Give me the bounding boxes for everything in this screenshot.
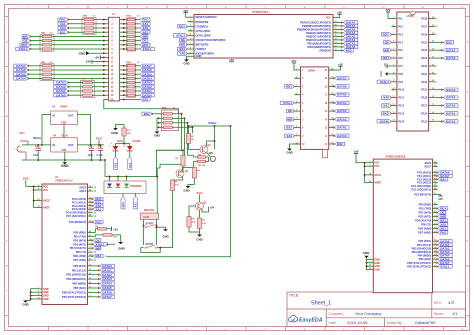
svg-text:WR: WR [95, 246, 101, 250]
no-connect pin 2 [190, 21, 192, 23]
U5 pin PB1 (OC1A) [433, 244, 438, 246]
no-connect pin 4 [190, 30, 192, 32]
svg-text:6: 6 [369, 165, 370, 167]
U5 pin PC0 (ADC0) [433, 172, 438, 174]
svg-text:PB3 (MOSI/OC2): PB3 (MOSI/OC2) [67, 278, 87, 281]
svg-text:7: 7 [89, 291, 90, 293]
svg-text:DATA6: DATA6 [446, 56, 456, 60]
net flag XA1 (U5) [438, 227, 448, 230]
svg-text:31: 31 [89, 235, 91, 237]
svg-text:IN: IN [53, 115, 56, 118]
svg-text:IN12v: IN12v [209, 121, 217, 125]
U5 pin PB3 (MOSI/OC2) [433, 251, 438, 253]
ground (RN6) [157, 118, 159, 131]
svg-text:GND: GND [196, 237, 202, 241]
svg-text:VCC: VCC [96, 137, 103, 141]
wire [143, 230, 145, 245]
svg-text:12V: 12V [183, 9, 188, 13]
resistor R7 [197, 218, 201, 229]
net flag RDY (U6) [284, 85, 294, 88]
svg-text:IN12v: IN12v [33, 136, 41, 140]
net flag DATA1 (U2 right) [344, 42, 358, 45]
svg-text:P119: P119 [421, 89, 427, 92]
svg-text:PB0 (ICP1): PB0 (ICP1) [73, 265, 86, 268]
U1 pin PB6 (XTAL1/TOSC1) [88, 291, 94, 293]
svg-text:DATA7: DATA7 [446, 48, 456, 52]
svg-text:7: 7 [296, 118, 297, 120]
svg-text:PB3 (MOSI/OC2): PB3 (MOSI/OC2) [412, 251, 432, 254]
svg-text:19: 19 [89, 186, 91, 188]
svg-text:XTAL2: XTAL2 [176, 33, 185, 37]
svg-text:GND: GND [61, 122, 66, 124]
wire [193, 155, 195, 157]
wire [26, 186, 37, 188]
net flag DATA3 (U6 right) [335, 109, 349, 112]
svg-text:OUT: OUT [68, 144, 74, 147]
svg-text:+5V: +5V [94, 55, 99, 59]
svg-text:12: 12 [334, 46, 336, 48]
svg-text:P117: P117 [421, 105, 427, 108]
net flags DATA3..DATA0 (left, lower group) [54, 81, 68, 84]
net flag DATA3 (U2 right) [344, 35, 358, 38]
svg-text:17: 17 [432, 104, 434, 106]
svg-text:BS1: BS1 [286, 126, 292, 130]
svg-text:P19: P19 [398, 81, 403, 84]
net flag OE (U1) [93, 239, 101, 242]
svg-text:26: 26 [89, 208, 91, 210]
svg-text:12: 12 [392, 104, 394, 106]
svg-text:DATA6: DATA6 [102, 290, 112, 294]
svg-text:PB2(OC0A/PCINT2): PB2(OC0A/PCINT2) [306, 38, 331, 42]
wire [112, 234, 121, 236]
svg-text:PD0 (RXD): PD0 (RXD) [419, 203, 432, 206]
U5 pin PB5 (SCK) [433, 258, 438, 260]
svg-text:5: 5 [393, 49, 394, 51]
svg-text:PC5 (ADC5/SCL): PC5 (ADC5/SCL) [411, 189, 431, 192]
resistor network RN2 [40, 34, 54, 51]
net flag XA0 (U6) [284, 134, 294, 137]
svg-text:DATA5: DATA5 [102, 286, 112, 290]
svg-text:13: 13 [434, 243, 436, 245]
net flag DATA5 (U1) [93, 287, 100, 289]
svg-text:BS2: BS2 [446, 40, 452, 44]
svg-text:DATA4: DATA4 [16, 76, 26, 80]
net flag DATA4 (U5) [438, 254, 452, 257]
svg-text:6: 6 [38, 189, 39, 191]
svg-text:GND: GND [79, 51, 87, 55]
U1 pin PB2 (SS#/OC1B) [88, 274, 94, 276]
U5 pin PB2 (SS#/OC1B) [433, 247, 438, 249]
net flag DATA2 (U1) [93, 274, 100, 276]
svg-text:7: 7 [434, 261, 435, 263]
svg-text:Company:: Company: [329, 312, 345, 316]
IC U5 ATMEGA168/328 [373, 159, 432, 293]
net flag BS1 (U7) [381, 56, 391, 59]
svg-text:18: 18 [369, 173, 371, 175]
svg-text:XTAL1: XTAL1 [380, 80, 389, 84]
svg-text:1: 1 [89, 243, 90, 245]
svg-text:PD0 (RXD): PD0 (RXD) [73, 231, 86, 234]
svg-text:PB5 (SCK): PB5 (SCK) [73, 287, 86, 290]
svg-text:VCC: VCC [326, 17, 331, 20]
U5 GND pins [368, 258, 373, 260]
net flag DATA3 (U5) [438, 250, 452, 253]
U5 pin PC6 (RESET#) [433, 194, 438, 196]
svg-text:RN6: RN6 [162, 108, 167, 110]
svg-text:19: 19 [334, 21, 336, 23]
regulator U3 78M05 [51, 111, 78, 125]
svg-text:DC1: DC1 [20, 131, 26, 135]
svg-text:RDY: RDY [286, 84, 292, 88]
svg-text:DATA1: DATA1 [337, 126, 347, 130]
U1 pin PB7 (XTAL2/TOSC2) [88, 296, 94, 298]
wire [68, 82, 83, 84]
net flags DATA7..DATA0 (right) [140, 64, 154, 67]
svg-text:PAG: PAG [95, 220, 102, 224]
wire [189, 227, 200, 232]
svg-text:PD7 (AIN1): PD7 (AIN1) [73, 259, 86, 262]
svg-text:DATA0: DATA0 [337, 134, 347, 138]
net flag DATA3 (U7 right) [444, 104, 458, 107]
svg-text:9: 9 [434, 223, 435, 225]
svg-text:4066F: 4066F [143, 216, 150, 219]
U1 pin PD0 (RXD) [88, 231, 94, 233]
svg-text:26: 26 [432, 33, 434, 35]
svg-text:23: 23 [432, 57, 434, 59]
resistor network RN3 [40, 64, 54, 81]
svg-text:DATA5: DATA5 [337, 93, 347, 97]
svg-text:P16: P16 [398, 57, 403, 60]
net flag XTAL2 (U2) [173, 34, 187, 37]
svg-text:(XTAL1)PA0: (XTAL1)PA0 [196, 33, 212, 37]
IC U7 28PIN socket [397, 12, 429, 131]
svg-text:(INT1)PD3: (INT1)PD3 [196, 43, 209, 47]
svg-text:GND: GND [118, 247, 126, 251]
net flag RDY (U5) [438, 207, 448, 210]
svg-text:12V: 12V [86, 60, 91, 64]
svg-text:DATA0: DATA0 [56, 93, 66, 97]
net flag XA0 (U7) [381, 96, 391, 99]
svg-text:AVCC: AVCC [374, 174, 381, 177]
wire [120, 19, 127, 21]
svg-text:PC5 (ADC5/SCL): PC5 (ADC5/SCL) [66, 215, 86, 218]
svg-text:WR: WR [287, 117, 293, 121]
svg-text:GND: GND [61, 164, 69, 168]
svg-text:15: 15 [434, 251, 436, 253]
svg-text:+5V: +5V [353, 149, 358, 153]
svg-text:(RXD)PD0: (RXD)PD0 [196, 20, 209, 24]
svg-text:GND: GND [162, 235, 168, 239]
svg-text:18: 18 [432, 96, 434, 98]
U5 right pins ADC [433, 162, 438, 164]
svg-text:PB4(OC1B/PCINT4): PB4(OC1B/PCINT4) [306, 31, 331, 35]
svg-text:10: 10 [434, 227, 436, 229]
U5 AREF pin [368, 181, 373, 183]
net flag XA0 (U5) [438, 223, 448, 226]
svg-text:AREF: AREF [43, 207, 50, 210]
svg-text:GND: GND [154, 133, 160, 137]
svg-text:P128: P128 [421, 18, 427, 21]
U5 pin PC2 (ADC2) [433, 178, 438, 180]
svg-text:13: 13 [89, 269, 91, 271]
net flag DATA0 (U6 right) [335, 134, 349, 137]
svg-text:28PIN: 28PIN [407, 15, 414, 18]
U1 pin PD4 (XCK/T0) [88, 247, 94, 249]
wire [106, 243, 115, 245]
svg-text:P120: P120 [421, 81, 427, 84]
svg-text:GND: GND [363, 251, 371, 255]
svg-text:PB7 (XTAL2/TOSC2): PB7 (XTAL2/TOSC2) [407, 265, 431, 268]
svg-text:P18: P18 [398, 73, 403, 76]
svg-text:11: 11 [434, 231, 436, 233]
svg-text:2: 2 [434, 219, 435, 221]
svg-text:GND: GND [111, 131, 119, 135]
svg-text:P121: P121 [421, 73, 427, 76]
svg-text:XTAL1: XTAL1 [283, 101, 292, 105]
svg-text:XA1: XA1 [128, 162, 132, 168]
U1 pin PB1 (OC1A) [88, 269, 94, 271]
svg-text:8: 8 [393, 72, 394, 74]
resistor network RN7 [81, 81, 95, 98]
U1 pin PC0 (ADC0) [88, 198, 94, 200]
U5 pin PB7 (XTAL2/TOSC2) [433, 265, 438, 267]
U1 GND pins [37, 288, 43, 290]
U1 pin PB5 (SCK) [88, 287, 94, 289]
svg-text:P13: P13 [398, 33, 403, 36]
resistor R2 [181, 156, 185, 167]
net flag WR (U5) [438, 215, 446, 218]
U5 pin PC4 (ADC4/SDA) [433, 185, 438, 187]
svg-text:PB6 (XTAL1/TOSC1): PB6 (XTAL1/TOSC1) [62, 291, 86, 294]
svg-text:PB6(MISO/DO/PCINT6): PB6(MISO/DO/PCINT6) [302, 24, 331, 28]
svg-text:DATA3: DATA3 [337, 109, 347, 113]
U1 pin PC3 (ADC3) [88, 208, 94, 210]
svg-text:DATA1: DATA1 [102, 268, 112, 272]
wire [109, 177, 111, 182]
net flag XA1 (RGB, vertical) [134, 197, 138, 209]
ground (U2 GND pin) [187, 56, 195, 59]
svg-text:P123: P123 [421, 57, 427, 60]
U1 pin PB4 (MISO) [88, 283, 94, 285]
net flag PAG (U7) [381, 112, 391, 115]
svg-text:GND: GND [61, 150, 66, 152]
U5 pin PD0 (RXD) [433, 203, 438, 205]
U1 right pins ADC [88, 186, 94, 188]
U5 VCC pins [368, 162, 373, 164]
svg-text:OE: OE [385, 40, 389, 44]
svg-text:TITLE:: TITLE: [289, 294, 299, 298]
svg-text:PB0 (ICP1): PB0 (ICP1) [418, 240, 431, 243]
U5 pin PB4 (MISO) [433, 255, 438, 257]
svg-text:29: 29 [434, 193, 436, 195]
svg-text:21: 21 [432, 72, 434, 74]
svg-text:6: 6 [393, 57, 394, 59]
svg-text:21: 21 [369, 265, 371, 267]
net flag DATA6 (U2 right) [344, 24, 358, 27]
ground (Q cluster) [186, 186, 191, 188]
U1 VCC pins [37, 186, 43, 188]
wire to erase cluster [156, 177, 158, 214]
ground (U7 pin8) [388, 73, 392, 75]
svg-text:P118: P118 [421, 97, 427, 100]
svg-text:BS1: BS1 [383, 56, 389, 60]
svg-text:DATA1: DATA1 [446, 111, 456, 115]
net flag BS1 (U2) [177, 47, 187, 50]
svg-text:22: 22 [432, 64, 434, 66]
svg-text:27: 27 [89, 211, 91, 213]
svg-text:22: 22 [89, 190, 91, 192]
U1 pin PD5 (T1) [88, 251, 94, 253]
net flag XA0 (U1) [93, 204, 103, 207]
net flag DATA6 (U1) [93, 291, 100, 293]
svg-text:PB6 (XTAL1/TOSC1): PB6 (XTAL1/TOSC1) [407, 262, 431, 265]
U1 pin PC4 (ADC4/SDA) [88, 212, 94, 214]
svg-text:ERASE: ERASE [144, 208, 154, 212]
net flag RDY (U7) [381, 33, 391, 36]
wire [46, 114, 51, 116]
svg-text:PD5 (T1): PD5 (T1) [76, 251, 86, 254]
svg-text:P127: P127 [421, 26, 427, 29]
svg-text:DATA0: DATA0 [102, 264, 112, 268]
net flag XA1 (U7) [381, 104, 391, 107]
wire [152, 113, 163, 115]
svg-text:P112: P112 [398, 105, 404, 108]
svg-text:7: 7 [190, 43, 191, 45]
svg-text:32: 32 [434, 211, 436, 213]
wire [194, 178, 196, 185]
svg-text:OE: OE [181, 38, 185, 42]
svg-text:P124: P124 [421, 49, 427, 52]
svg-text:EasyEDA: EasyEDA [299, 318, 323, 324]
net flag OE (U5) [438, 211, 446, 214]
net flag DATA4 (U1) [93, 283, 100, 285]
U5 pin PC1 (ADC1) [433, 175, 438, 177]
svg-text:BS1: BS1 [60, 30, 66, 34]
svg-text:RDY: RDY [179, 24, 185, 28]
net flag DATA4 (U6 right) [335, 101, 349, 104]
net flag BS1 (U1) [93, 201, 103, 204]
svg-text:AVCC: AVCC [43, 200, 50, 203]
resistor R1 [186, 134, 190, 144]
svg-text:ATTINY2313: ATTINY2313 [252, 10, 269, 14]
net flag XTAL1 (U1) [93, 243, 107, 246]
title block [287, 292, 466, 327]
svg-text:Sheet:: Sheet: [434, 312, 444, 316]
net flag PAG (U1) [93, 221, 103, 224]
svg-text:5: 5 [369, 261, 370, 263]
svg-text:8: 8 [89, 295, 90, 297]
svg-text:PAG: PAG [383, 111, 390, 115]
svg-text:Your Company: Your Company [355, 311, 381, 316]
svg-text:(TXD)PD1: (TXD)PD1 [196, 24, 209, 28]
net flag DATA0 (U2 right) [344, 45, 358, 48]
wire [157, 226, 165, 228]
svg-text:ADC6: ADC6 [79, 186, 86, 189]
U1 pin PC5 (ADC5/SCL) [88, 215, 94, 217]
resistor network RN5 [126, 64, 135, 97]
net flag XA1 (LED2, vertical) [128, 157, 132, 169]
EasyEDA logo [288, 315, 297, 321]
svg-text:XTAL1: XTAL1 [19, 47, 28, 51]
svg-text:9: 9 [190, 52, 191, 54]
svg-text:1: 1 [296, 68, 297, 70]
svg-text:+5V: +5V [113, 227, 118, 231]
svg-text:P114: P114 [398, 120, 404, 123]
svg-text:BS2: BS2 [142, 97, 148, 101]
resistor R8 [187, 217, 191, 228]
net flag DATA5 (U6 right) [335, 93, 349, 96]
svg-text:32: 32 [89, 239, 91, 241]
net flag DATA4 (U7 right) [444, 96, 458, 99]
net flag DATA7 (U2 right) [344, 21, 358, 24]
net flag DATA6 (U6 right) [335, 85, 349, 88]
svg-text:8: 8 [296, 126, 297, 128]
net flags PAG XA1 XA0 BS1 WR OE RDY XTAL1 (right of J1) [140, 18, 150, 21]
svg-text:7: 7 [393, 64, 394, 66]
U1 pin PD3 (INT1) [88, 243, 94, 245]
svg-text:PD6 (AIN0): PD6 (AIN0) [418, 227, 431, 230]
svg-text:13: 13 [392, 112, 394, 114]
wire [189, 125, 231, 127]
ground (R10) [118, 242, 123, 244]
svg-text:25: 25 [432, 41, 434, 43]
wire main rail [22, 144, 51, 146]
U1 pin PC6 (RESET#) [88, 221, 94, 223]
wire [120, 65, 127, 67]
svg-text:1: 1 [190, 16, 191, 18]
svg-text:1.0: 1.0 [448, 300, 454, 305]
svg-text:31: 31 [434, 207, 436, 209]
net flag DATA2 (U7 right) [444, 120, 458, 123]
svg-text:BS1: BS1 [179, 47, 185, 51]
svg-text:DATA2: DATA2 [102, 273, 112, 277]
svg-text:23: 23 [89, 197, 91, 199]
svg-text:15: 15 [334, 35, 336, 37]
svg-text:PB2 (SS#/OC1B): PB2 (SS#/OC1B) [412, 247, 432, 250]
svg-text:13: 13 [334, 42, 336, 44]
svg-text:17: 17 [334, 28, 336, 30]
U1 AREF pin [37, 207, 43, 209]
svg-text:10uF: 10uF [33, 154, 39, 157]
svg-text:PD3 (INT1): PD3 (INT1) [419, 215, 432, 218]
svg-text:P126: P126 [421, 33, 427, 36]
svg-text:18: 18 [331, 85, 333, 87]
svg-text:17: 17 [434, 258, 436, 260]
svg-text:12: 12 [331, 134, 333, 136]
svg-text:15: 15 [89, 278, 91, 280]
net flag DATA1 (U1) [93, 269, 100, 271]
net flag DATA7 (U5 pb6) [438, 261, 452, 264]
svg-text:BAD: BAD [117, 139, 123, 143]
svg-text:PD7 (AIN1): PD7 (AIN1) [418, 231, 431, 234]
svg-text:9: 9 [89, 251, 90, 253]
svg-text:XTAL1: XTAL1 [440, 264, 449, 268]
wire BS2 row to RN4 area [104, 99, 179, 113]
svg-text:RESET#/dW/PA2: RESET#/dW/PA2 [196, 15, 218, 19]
svg-text:PD1 (TXD): PD1 (TXD) [74, 235, 86, 238]
U5 pin PB0 (ICP1) [433, 240, 438, 242]
svg-text:27: 27 [432, 25, 434, 27]
svg-text:PB4 (MISO): PB4 (MISO) [72, 283, 86, 286]
resistor network RN6 [162, 110, 179, 131]
+5V power flag (U6 pin20) [329, 66, 341, 70]
svg-text:GND: GND [286, 150, 292, 154]
svg-text:VCC: VCC [23, 177, 30, 181]
svg-text:+5V: +5V [210, 206, 215, 210]
wire [116, 125, 125, 129]
net flag XA0 (RGB, vertical) [121, 197, 125, 209]
svg-text:8: 8 [434, 265, 435, 267]
